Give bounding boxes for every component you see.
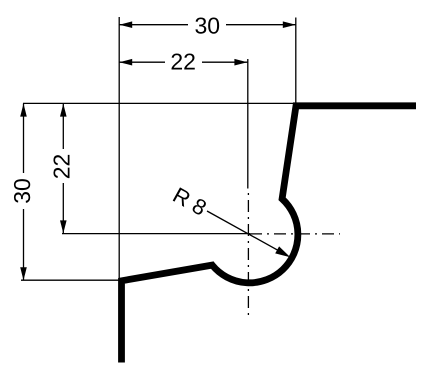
profile outline (thick part contour)	[122, 106, 417, 363]
arrow bottom of left 22	[60, 220, 67, 233]
arrow left of top 22	[119, 59, 132, 66]
svg-text:22: 22	[49, 154, 75, 180]
dimension line 22 (left vertical)	[62, 104, 64, 149]
arrow bottom of left 30	[20, 267, 27, 280]
extension line right vertical x=296	[295, 18, 297, 104]
svg-text:22: 22	[170, 49, 196, 75]
dimension line 30 (top)	[119, 24, 188, 26]
centerline vertical (dash-dot)	[247, 193, 249, 319]
svg-text:30: 30	[195, 13, 221, 39]
dimension line 30 (left vertical)	[23, 104, 25, 173]
arrow right of top 30	[283, 21, 296, 28]
extension line center vertical x=248 (solid upper part)	[247, 59, 249, 189]
centerline horizontal (dash-dot)	[250, 233, 340, 235]
svg-text:30: 30	[9, 178, 35, 204]
arrow top of left 30	[20, 104, 27, 117]
extension line horizontal y=103 (top surface extended left)	[23, 102, 296, 104]
extension line left vertical x=119	[118, 17, 120, 280]
arrow top of left 22	[60, 104, 67, 117]
dimension line 22 (top)	[119, 61, 165, 63]
arrow left of top 30	[119, 21, 132, 28]
extension line horizontal y=233.6 (to arc center)	[62, 233, 250, 235]
leader line for radius callout	[207, 211, 288, 256]
arrow right of top 22	[234, 59, 247, 66]
extension line horizontal y=280 (bottom corner extended left)	[21, 279, 120, 281]
leader arrowhead	[275, 246, 290, 257]
